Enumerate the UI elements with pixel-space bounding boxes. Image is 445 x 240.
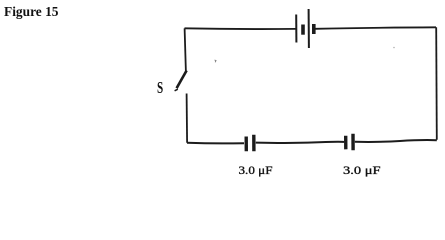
svg-text:S: S (157, 78, 163, 97)
svg-text:Figure 15: Figure 15 (4, 5, 59, 20)
svg-text:3.0 μF: 3.0 μF (343, 163, 381, 177)
svg-text:3.0 μF: 3.0 μF (239, 163, 273, 177)
